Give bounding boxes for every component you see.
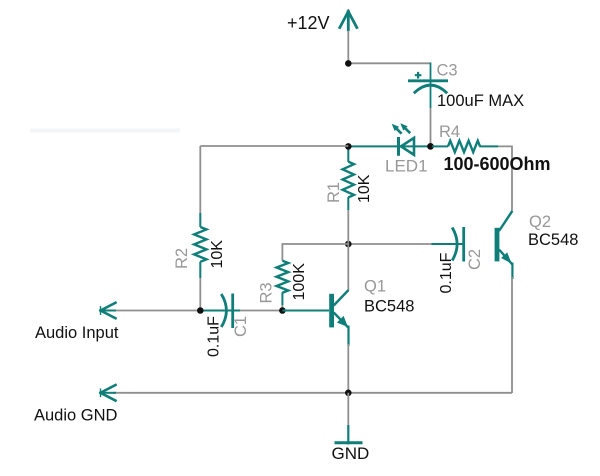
resistor R3 (277, 261, 289, 311)
svg-text:R3: R3 (258, 282, 276, 303)
svg-text:C3: C3 (437, 62, 458, 80)
svg-text:Audio Input: Audio Input (35, 324, 119, 342)
svg-text:BC548: BC548 (528, 231, 578, 249)
wire: C1 row (200, 310, 240, 312)
wire: R3 branch from base row (282, 244, 348, 261)
transistor Q1 (282, 290, 348, 346)
resistor R4 (432, 141, 498, 152)
svg-text:100-600Ohm: 100-600Ohm (444, 154, 551, 174)
wire: Q1 emitter to bottom rail (347, 344, 349, 393)
svg-text:BC548: BC548 (364, 298, 414, 316)
wire: left vertical down to R2 (199, 146, 201, 213)
resistor R1 (343, 146, 354, 244)
wire: Q2 emitter down to bottom rail (511, 277, 513, 393)
wire: GND stem (347, 393, 349, 425)
wire: C3 branch vertical (430, 63, 432, 109)
ground (335, 425, 363, 445)
svg-text:R4: R4 (439, 123, 460, 141)
node: Audio GND arrow (101, 385, 116, 401)
junction node LED row (345, 143, 352, 150)
svg-text:R2: R2 (173, 248, 191, 269)
svg-text:10K: 10K (209, 240, 226, 269)
svg-text:C1: C1 (232, 316, 250, 337)
LED LED1 (392, 123, 414, 156)
capacitor C1 (221, 294, 232, 329)
faint artifact line top-left (30, 129, 180, 133)
wire: R4 to Q2 collector (498, 146, 512, 210)
wire: bottom rail (113, 392, 512, 394)
transistor Q2 (495, 211, 513, 279)
svg-text:C2: C2 (466, 249, 484, 270)
wire: base row center to C2 (348, 243, 431, 245)
svg-text:100uF MAX: 100uF MAX (437, 92, 524, 110)
junction node LED/R4 (427, 143, 434, 150)
wire: +12V vertical feed (347, 9, 349, 64)
svg-text:LED1: LED1 (385, 157, 428, 176)
svg-text:0.1uF: 0.1uF (438, 252, 455, 293)
junction top node (345, 60, 352, 67)
wire: Q1 collector vertical (347, 244, 349, 291)
svg-text:Q1: Q1 (364, 278, 386, 296)
node: Audio Input arrow (101, 303, 116, 319)
junction node R3/C1/Q1 base (279, 307, 286, 314)
svg-text:Audio GND: Audio GND (34, 407, 118, 425)
wire: horizontal LED row (348, 145, 430, 147)
node: +12V supply arrow (340, 12, 357, 30)
svg-text:GND: GND (332, 444, 370, 463)
wire: audio input row (113, 310, 200, 312)
wire: top horizontal to C3 branch (348, 62, 430, 64)
junction node C1/R2 (197, 307, 204, 314)
svg-text:0.1uF: 0.1uF (206, 316, 223, 357)
svg-text:Q2: Q2 (529, 213, 551, 231)
svg-text:100K: 100K (291, 263, 308, 301)
svg-text:+12V: +12V (287, 13, 330, 33)
resistor R2 (194, 213, 206, 311)
svg-text:10K: 10K (356, 174, 373, 203)
junction node bottom (345, 390, 352, 397)
capacitor C3 (408, 72, 448, 93)
wire: left top horizontal (200, 145, 348, 147)
svg-text:R1: R1 (325, 182, 343, 203)
junction node base row (345, 241, 352, 248)
capacitor C2 (452, 227, 464, 262)
